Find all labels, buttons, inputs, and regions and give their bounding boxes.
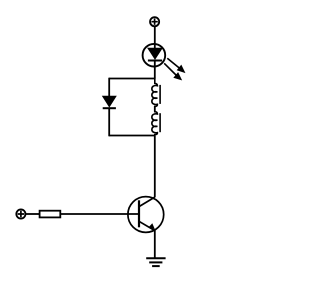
wire emitter to ground: [154, 230, 156, 258]
supply terminal +: [150, 17, 159, 26]
diode D2: [103, 96, 116, 108]
wire node B to transistor collector: [154, 136, 156, 198]
resistor R1: [40, 211, 61, 218]
input terminal +: [16, 209, 25, 218]
ground: [146, 258, 165, 266]
wire between inductors: [154, 106, 156, 112]
LED D1: [143, 44, 166, 67]
wire resistor to transistor base: [60, 213, 139, 215]
LED light arrow 2: [164, 63, 181, 79]
wire node A to diode branch (top horizontal): [109, 78, 155, 80]
LED light arrow 1: [167, 58, 184, 72]
wire LED to node A: [154, 61, 156, 79]
inductor L1: [152, 78, 160, 108]
wire diode anode lead: [108, 78, 110, 97]
wire diode cathode lead: [108, 108, 110, 136]
inductor L2: [152, 111, 160, 136]
wire input terminal to resistor R1: [26, 213, 40, 215]
transistor Q1: [128, 197, 164, 233]
wire diode branch to node B (bottom horizontal): [109, 135, 155, 137]
wire supply to LED: [154, 27, 156, 49]
